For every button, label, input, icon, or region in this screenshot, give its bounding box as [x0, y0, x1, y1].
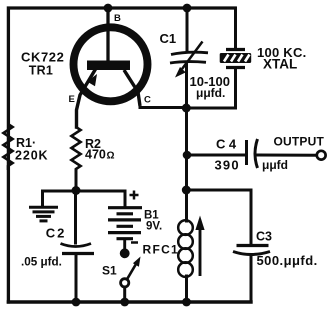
svg-text:C: C — [144, 94, 151, 105]
svg-text:Ω: Ω — [107, 151, 115, 162]
capacitor C1 plates — [171, 52, 208, 54]
node S1 bottom — [120, 298, 129, 307]
node C4 junction — [183, 151, 192, 160]
wire base lead — [106, 8, 109, 61]
battery plus sign — [130, 191, 139, 200]
wire XTAL bottom to node — [186, 69, 236, 108]
transistor TR1 base bar — [87, 61, 130, 71]
capacitor C2 bottom plate — [62, 252, 94, 255]
svg-text:CK722: CK722 — [21, 50, 64, 65]
wire C3 bottom lead — [250, 256, 253, 302]
svg-text:OUTPUT: OUTPUT — [274, 135, 325, 149]
node RFC junction — [182, 186, 191, 195]
wire emitter lead — [77, 70, 96, 127]
capacitor C1 arrow — [182, 42, 203, 70]
wire node to battery — [76, 191, 125, 206]
capacitor C4 left plate — [245, 140, 248, 165]
resistor R1 — [3, 124, 12, 170]
svg-text:470: 470 — [85, 148, 106, 162]
crystal XTAL bottom plate — [226, 66, 245, 69]
wire output lead — [258, 154, 316, 157]
output terminal — [317, 151, 326, 160]
svg-text:C2: C2 — [46, 226, 67, 241]
wire C2 top lead — [74, 191, 77, 243]
svg-text:μμfd.: μμfd. — [196, 86, 225, 100]
wire C2 bottom lead — [75, 254, 78, 302]
crystal XTAL top plate — [226, 48, 245, 51]
node R2 bottom junction — [72, 186, 81, 195]
node collector junction — [182, 104, 191, 113]
node top C1 — [183, 4, 192, 13]
node C2 bottom — [72, 298, 81, 307]
inductor RFC1 coil — [178, 220, 193, 277]
wire R2 bottom — [75, 170, 78, 190]
wire collector node horizontal — [140, 106, 186, 109]
node top base — [104, 4, 113, 13]
svg-text:S1: S1 — [102, 264, 117, 278]
wire top to XTAL — [234, 8, 237, 48]
svg-text:9V.: 9V. — [146, 221, 162, 233]
svg-text:500.μμfd.: 500.μμfd. — [257, 253, 318, 268]
svg-text:C3: C3 — [256, 230, 272, 244]
wire C4 branch — [187, 154, 246, 157]
wire left rail and top wire — [8, 8, 235, 302]
wire C1 top lead — [186, 8, 189, 52]
battery B1 — [108, 208, 142, 249]
transistor TR1 emitter arrowhead — [87, 74, 97, 86]
svg-text:XTAL: XTAL — [263, 57, 297, 72]
svg-text:C4: C4 — [216, 137, 240, 152]
transistor TR1 outer circle — [74, 27, 148, 101]
svg-text:μμfd: μμfd — [262, 158, 288, 172]
wire node to ground — [43, 191, 77, 206]
transistor TR1 collector line — [124, 70, 140, 106]
capacitor C3 bottom plate — [233, 252, 270, 255]
crystal XTAL body — [220, 53, 252, 63]
capacitor C2 top plate — [61, 244, 92, 247]
wire middle rail lower — [185, 276, 188, 302]
switch S1 arm — [127, 264, 136, 279]
inductor RFC1 arrow — [199, 228, 202, 276]
svg-text:E: E — [69, 94, 75, 105]
svg-text:220K: 220K — [15, 149, 48, 163]
ground — [29, 207, 58, 221]
capacitor C4 right plate — [255, 139, 258, 168]
wire switch bottom lead — [123, 288, 126, 303]
capacitor C3 top plate — [237, 244, 269, 247]
switch S1 upper contact — [120, 248, 130, 258]
svg-text:TR1: TR1 — [29, 64, 53, 78]
svg-text:.05 μfd.: .05 μfd. — [21, 255, 62, 268]
svg-text:390: 390 — [215, 158, 240, 173]
wire middle rail upper — [185, 108, 188, 221]
wire C3 branch — [187, 190, 252, 244]
svg-text:C1: C1 — [160, 31, 177, 46]
wire C1 bottom lead — [185, 63, 188, 108]
resistor R2 — [71, 127, 80, 170]
svg-text:B: B — [114, 13, 121, 24]
svg-text:RFC1: RFC1 — [143, 243, 180, 257]
wire bottom rail — [8, 300, 251, 303]
battery minus dash — [131, 241, 138, 244]
node RFC bottom — [182, 298, 191, 307]
switch S1 lower contact — [121, 279, 129, 287]
